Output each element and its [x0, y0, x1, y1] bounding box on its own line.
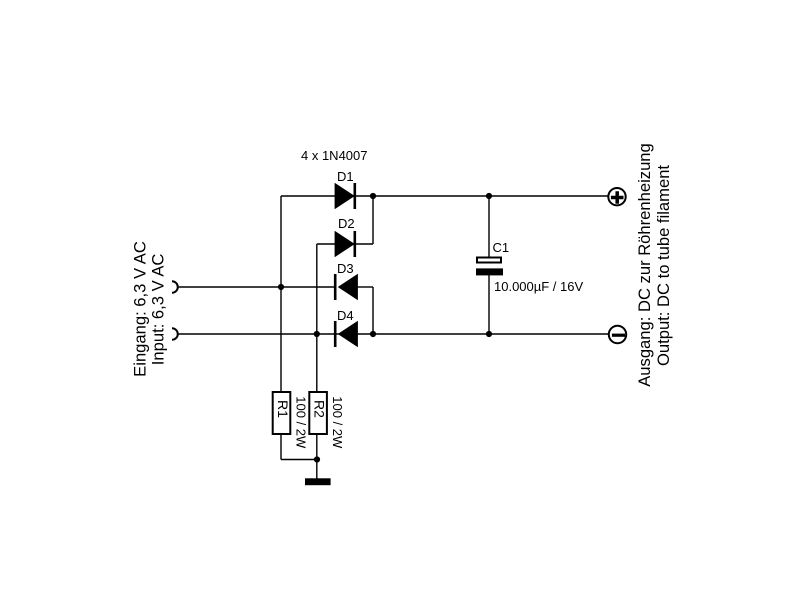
svg-text:C1: C1 — [493, 240, 510, 255]
node: junction R1/R2 to ground — [314, 456, 320, 462]
svg-text:D1: D1 — [337, 169, 354, 184]
wire: D2 cathode stub — [356, 243, 373, 245]
capacitor C1 — [476, 240, 583, 294]
resistor R1 — [273, 392, 309, 449]
wire: AC1 vertical from top rail to R1 — [280, 196, 282, 391]
svg-text:100 / 2W: 100 / 2W — [330, 396, 345, 449]
terminal: DC output plus — [608, 188, 625, 205]
terminal: AC input 2 — [172, 328, 178, 340]
svg-text:Input: 6,3 V AC: Input: 6,3 V AC — [149, 254, 168, 366]
diode D3 — [335, 261, 357, 300]
wire: R1 to R2 bottom link — [281, 459, 317, 461]
svg-text:R2: R2 — [311, 400, 327, 418]
node: junction AC1/top input — [278, 284, 284, 290]
wire: AC2 vertical from D2 anode to R2 — [316, 244, 318, 391]
wire: D2 anode stub — [317, 243, 335, 245]
wire: D3 anode vertical to bottom rail — [372, 287, 374, 334]
terminal: DC output minus — [609, 326, 626, 343]
wire: top positive rail — [281, 195, 608, 197]
wire: R2 bottom lead to ground — [316, 435, 318, 479]
ground — [305, 478, 331, 485]
node: junction AC2/bottom input — [314, 331, 320, 337]
node: junction C1 on top rail — [486, 193, 492, 199]
svg-text:D4: D4 — [337, 308, 354, 323]
svg-text:Ausgang: DC zur Röhrenheizung: Ausgang: DC zur Röhrenheizung — [635, 143, 654, 387]
node: junction C1 on bottom rail — [486, 331, 492, 337]
diode D1 — [335, 169, 355, 209]
svg-text:R1: R1 — [275, 400, 291, 418]
wire: C1 bottom lead — [488, 275, 490, 335]
wire: R1 bottom lead — [280, 435, 282, 460]
wire: D3 anode stub — [358, 286, 374, 288]
wire: bottom negative rail — [179, 333, 609, 335]
svg-text:Output: DC to tube filament: Output: DC to tube filament — [654, 165, 673, 366]
diode D2 — [335, 216, 355, 257]
svg-text:D3: D3 — [337, 261, 354, 276]
svg-text:D2: D2 — [338, 216, 355, 231]
wire: C1 top lead — [488, 196, 490, 258]
svg-text:Eingang: 6,3 V AC: Eingang: 6,3 V AC — [130, 241, 149, 377]
wire: D2 cathode vertical to top rail — [372, 196, 374, 244]
terminal: AC input 1 — [172, 281, 178, 293]
diode D4 — [335, 308, 357, 347]
resistor R2 — [309, 392, 345, 449]
svg-text:4 x 1N4007: 4 x 1N4007 — [301, 148, 368, 163]
svg-text:10.000µF / 16V: 10.000µF / 16V — [494, 279, 583, 294]
svg-text:100 / 2W: 100 / 2W — [294, 396, 309, 449]
node: junction D3/D4 anodes on bottom rail — [370, 331, 376, 337]
wire: AC1 input line — [179, 286, 335, 288]
node: junction D1 cathode on top rail — [370, 193, 376, 199]
